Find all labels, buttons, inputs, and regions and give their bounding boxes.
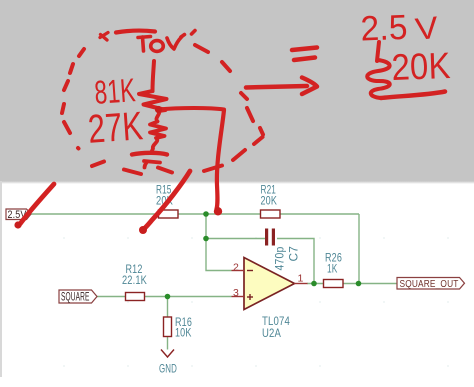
- svg-text:10K: 10K: [175, 326, 192, 340]
- svg-text:2: 2: [233, 262, 239, 274]
- svg-text:470p: 470p: [273, 246, 287, 270]
- svg-text:V: V: [414, 10, 441, 47]
- svg-text:SQUARE: SQUARE: [61, 292, 90, 304]
- svg-text:27K: 27K: [87, 104, 145, 152]
- svg-text:22.1K: 22.1K: [122, 273, 147, 287]
- svg-text:20K: 20K: [261, 194, 278, 208]
- svg-text:3: 3: [233, 287, 239, 299]
- svg-text:C7: C7: [287, 246, 301, 262]
- svg-text:2.5: 2.5: [360, 8, 408, 49]
- svg-text:GND: GND: [159, 362, 177, 376]
- svg-text:20K: 20K: [391, 45, 451, 88]
- svg-text:U2A: U2A: [262, 326, 281, 340]
- svg-text:1: 1: [298, 273, 304, 285]
- svg-text:1K: 1K: [327, 262, 338, 276]
- svg-text:SQUARE_OUT: SQUARE_OUT: [400, 278, 459, 290]
